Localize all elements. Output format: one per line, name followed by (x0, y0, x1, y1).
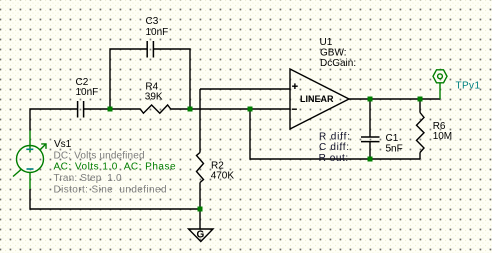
junction node: C1 bottom / feedback wire (368, 157, 373, 162)
junction node: R4 / C3 output to inverting input (188, 107, 193, 112)
junction node: C2 / C3 / R4 input net (108, 107, 113, 112)
resistor R2 (197, 153, 204, 183)
svg-text:GBW:: GBW: (320, 48, 346, 59)
capacitor C2 (78, 101, 84, 118)
svg-text:C diff:: C diff: (319, 142, 349, 153)
junction node: output / R6 branch (418, 97, 423, 102)
wire (200, 88, 290, 90)
op-amp U1 (290, 69, 349, 129)
wire (30, 189, 200, 209)
resistor R4 (140, 105, 171, 113)
svg-text:R out:: R out: (319, 153, 349, 164)
wire (419, 99, 421, 113)
junction node: op-amp output / C1 branch (368, 97, 373, 102)
wire (369, 142, 371, 159)
capacitor C1 (361, 137, 380, 142)
wire (171, 108, 291, 110)
svg-text:TPv1: TPv1 (456, 80, 481, 91)
svg-text:C1: C1 (386, 133, 399, 144)
svg-text:10nF: 10nF (76, 87, 99, 98)
wire (250, 109, 420, 159)
testpoint TPv1 (433, 70, 447, 99)
junction node: bottom rail / ground stem (198, 207, 203, 212)
junction node: inverting input / feedback branch (248, 107, 253, 112)
svg-text:DC: Volts undefined: DC: Volts undefined (54, 150, 145, 161)
wire (419, 153, 421, 160)
svg-text:5nF: 5nF (386, 144, 403, 155)
svg-text:Vs1: Vs1 (54, 139, 72, 150)
svg-text:G: G (197, 230, 205, 241)
svg-text:C3: C3 (146, 16, 159, 27)
capacitor C3 (147, 41, 153, 58)
wire (84, 108, 141, 110)
svg-text:Distort: Sine undefined: Distort: Sine undefined (54, 184, 167, 195)
svg-text:10M: 10M (433, 131, 452, 142)
svg-text:U1: U1 (320, 37, 333, 48)
resistor R6 (417, 113, 425, 153)
voltage source Vs1 (13, 131, 46, 190)
wire (199, 183, 201, 230)
wire (349, 98, 440, 100)
svg-text:DcGain:: DcGain: (320, 58, 356, 69)
wire (369, 99, 371, 137)
svg-text:39K: 39K (145, 92, 163, 103)
wire (30, 109, 78, 131)
svg-text:LINEAR: LINEAR (300, 94, 334, 104)
wire (110, 49, 147, 109)
svg-text:AC: Volts 1.0 AC: Phase: AC: Volts 1.0 AC: Phase (54, 162, 176, 173)
ground (189, 229, 214, 242)
wire (153, 49, 190, 109)
svg-text:470K: 470K (211, 171, 235, 182)
svg-text:10nF: 10nF (146, 27, 169, 38)
svg-text:Tran: Step 1.0: Tran: Step 1.0 (54, 173, 122, 184)
wire (199, 89, 201, 153)
